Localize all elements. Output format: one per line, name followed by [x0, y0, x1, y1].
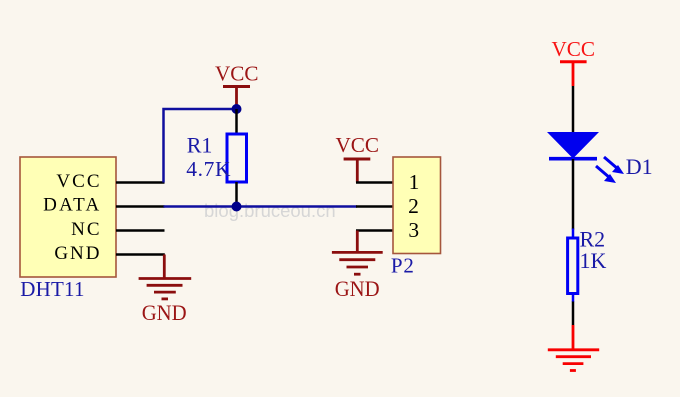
svg-text:2: 2: [408, 194, 419, 218]
svg-text:3: 3: [408, 218, 419, 242]
power symbol VCC (above P2 pin 1): [335, 133, 379, 183]
wire DATA to P2 pin 2: [356, 205, 393, 208]
svg-text:P2: P2: [391, 254, 415, 278]
wire DATA net (blue horizontal): [164, 205, 358, 208]
pin 3 NC stub: [116, 229, 165, 232]
svg-text:1: 1: [409, 170, 420, 194]
junction node at VCC / R1 top: [232, 104, 242, 114]
svg-text:4.7K: 4.7K: [186, 157, 231, 181]
svg-text:VCC: VCC: [215, 61, 259, 85]
wire D1 cathode to R2: [572, 159, 575, 230]
svg-text:GND: GND: [54, 243, 101, 264]
wire VCC to LED D1 anode: [572, 86, 575, 133]
power symbol VCC left (above R1): [215, 61, 259, 107]
junction node DATA / R1 bottom: [232, 202, 242, 212]
pin 2 DATA stub: [116, 205, 165, 208]
wire junction to R1 top: [235, 109, 238, 135]
LED D1 (triangle + cathode bar): [547, 132, 599, 159]
svg-text:DHT11: DHT11: [20, 277, 84, 301]
power symbol VCC (right, red): [551, 37, 595, 86]
svg-text:GND: GND: [335, 276, 380, 301]
svg-text:VCC: VCC: [56, 171, 101, 192]
svg-text:VCC: VCC: [551, 37, 595, 61]
wire VCC net: DHT11 VCC pin up and right to R1 top: [164, 109, 237, 183]
svg-text:R1: R1: [187, 132, 213, 157]
ground symbol GND (below DHT11): [139, 255, 192, 326]
pin 1 VCC stub: [116, 181, 165, 184]
resistor R1: [227, 134, 247, 182]
wire R1 bottom to DATA net: [235, 182, 238, 207]
svg-text:blog.bruceou.cn: blog.bruceou.cn: [204, 200, 336, 221]
pin 4 GND stub: [116, 253, 165, 256]
wire R2 to ground: [572, 302, 575, 326]
wire P2 pin 3 to GND: [356, 229, 393, 232]
wire VCC to P2 pin 1: [356, 181, 393, 184]
ground symbol GND (below P2): [332, 231, 383, 301]
svg-text:D1: D1: [626, 154, 653, 179]
connector P2 body: [393, 157, 441, 254]
resistor R2 (with blue pin stubs): [568, 229, 578, 303]
svg-text:DATA: DATA: [43, 195, 101, 216]
svg-text:GND: GND: [142, 300, 187, 325]
LED D1 emission arrows: [596, 157, 624, 183]
svg-text:1K: 1K: [580, 248, 607, 273]
svg-text:NC: NC: [71, 219, 101, 240]
component DHT11 body: [20, 157, 116, 277]
ground symbol (right, red power ground): [548, 325, 599, 371]
svg-text:VCC: VCC: [335, 133, 379, 157]
